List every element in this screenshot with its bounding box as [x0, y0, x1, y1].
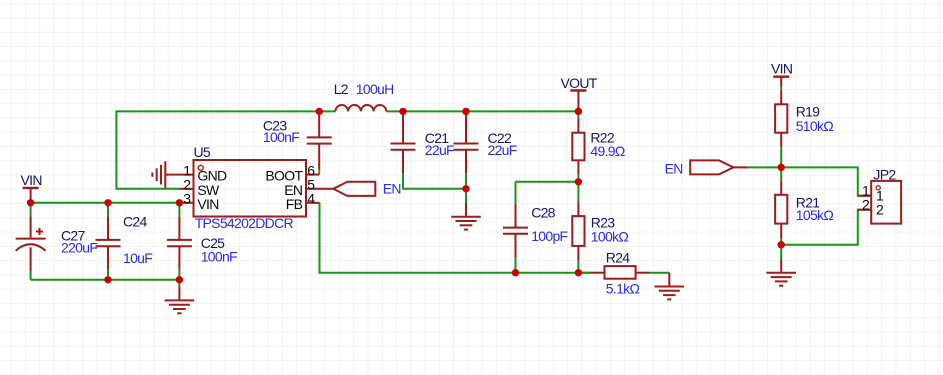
- junction VOUT node: [575, 108, 582, 115]
- wire R24 right to ground: [650, 272, 670, 274]
- svg-text:100pF: 100pF: [531, 228, 567, 244]
- svg-text:22uF: 22uF: [425, 142, 454, 158]
- resistor R23: [572, 202, 584, 261]
- svg-text:C24: C24: [123, 214, 147, 230]
- wire C28 top segment: [515, 182, 517, 204]
- svg-text:2: 2: [876, 201, 884, 217]
- junction EN divider node: [778, 164, 785, 171]
- wire C25 bottom segment: [178, 270, 180, 287]
- svg-text:VIN: VIN: [197, 196, 218, 212]
- wire R23 top segment: [577, 182, 579, 202]
- svg-text:105kΩ: 105kΩ: [796, 207, 834, 223]
- wire R21 top segment: [780, 167, 782, 181]
- wire R21 bottom to ground: [780, 245, 782, 259]
- svg-text:2: 2: [862, 196, 870, 212]
- capacitor C25: [167, 216, 192, 270]
- junction VIN port / C27 node: [27, 199, 34, 206]
- ground right of R24: [655, 273, 685, 300]
- svg-text:C28: C28: [531, 205, 555, 221]
- svg-text:FB: FB: [286, 196, 303, 212]
- wire FB node down and along bottom to R24: [320, 203, 591, 273]
- U5 pin2 SW stub: [179, 188, 193, 190]
- svg-text:5.1kΩ: 5.1kΩ: [606, 280, 640, 296]
- capacitor C27 polarized: [16, 216, 46, 271]
- junction R23 / R24 node: [575, 269, 582, 276]
- svg-text:JP2: JP2: [873, 167, 896, 183]
- wire top rail from L2 to VOUT node: [386, 110, 578, 112]
- svg-text:10uF: 10uF: [123, 250, 152, 266]
- junction L2 / C21 node: [399, 108, 406, 115]
- wire EN node to JP2 pin1: [781, 167, 871, 195]
- wire C25 top segment: [178, 203, 180, 216]
- svg-text:220uF: 220uF: [61, 239, 97, 255]
- junction C24 top node: [104, 199, 111, 206]
- wire C27 bottom segment: [30, 272, 32, 280]
- U5 pin5 EN stub to port: [306, 188, 333, 190]
- U5 pin3 VIN stub: [179, 202, 193, 204]
- ground below R21: [766, 259, 796, 286]
- JP2 pin1 stub: [858, 195, 871, 197]
- svg-text:100nF: 100nF: [263, 129, 299, 145]
- wire top rail L2 left lead: [319, 110, 335, 112]
- junction FB divider node: [575, 178, 582, 185]
- wire VIN right below port: [780, 87, 782, 91]
- svg-text:VIN: VIN: [21, 172, 42, 188]
- EN right port pin: [733, 166, 747, 168]
- junction C22 top node: [462, 108, 469, 115]
- port VOUT: [570, 91, 586, 112]
- IC U5 TPS54202DDCR body: [194, 160, 307, 217]
- wire R23 bottom segment: [577, 260, 579, 272]
- svg-text:L2: L2: [334, 81, 349, 97]
- U5 pin6 BOOT stub: [306, 174, 319, 176]
- JP2 pin2 stub: [858, 209, 871, 211]
- junction C22 bottom ground node: [462, 185, 469, 192]
- svg-text:EN: EN: [383, 181, 401, 197]
- capacitor C24: [96, 216, 121, 270]
- resistor R22: [577, 111, 579, 118]
- ground below C22: [451, 203, 481, 230]
- svg-text:510kΩ: 510kΩ: [796, 118, 834, 134]
- wire C27 top segment: [30, 203, 32, 216]
- U5 pin1 GND stub with ground attach: [165, 174, 193, 176]
- junction R21 bottom node: [778, 241, 785, 248]
- junction C24 bottom node: [104, 276, 111, 283]
- U5 pin4 FB stub: [306, 202, 320, 204]
- junction SW / C23 / L2 node: [316, 108, 323, 115]
- svg-text:100nF: 100nF: [201, 249, 237, 265]
- port EN at U5: [333, 182, 375, 196]
- junction C28 bottom node: [512, 269, 519, 276]
- port EN right: [690, 160, 733, 174]
- svg-text:R24: R24: [606, 249, 630, 265]
- svg-text:49.9Ω: 49.9Ω: [590, 143, 624, 159]
- wire C24 bottom segment: [107, 270, 109, 280]
- wire R24 left segment: [578, 272, 590, 274]
- capacitor C23: [307, 111, 332, 169]
- junction C25 / U5 VIN node: [176, 199, 183, 206]
- wire EN port right to node: [748, 166, 781, 168]
- wire C21 bottom to gnd net: [403, 173, 466, 189]
- wire R21 bottom node to JP2 pin2: [781, 210, 871, 245]
- junction C25 bottom ground node: [176, 276, 183, 283]
- wire SW loop from U5 pin2 up and over to L2 left node: [116, 111, 319, 188]
- wire bottom-left ground rail: [31, 279, 180, 281]
- svg-text:22uF: 22uF: [488, 142, 517, 158]
- connector JP2: [871, 181, 901, 224]
- capacitor C22: [454, 111, 479, 173]
- svg-text:U5: U5: [194, 144, 211, 160]
- svg-text:VOUT: VOUT: [561, 75, 598, 91]
- wire C22 bottom to ground: [465, 173, 467, 203]
- wire C28 bottom segment: [515, 258, 517, 273]
- wire feedback node to C28: [516, 181, 579, 183]
- svg-text:VIN: VIN: [771, 60, 792, 76]
- wire VIN rail: [31, 202, 180, 204]
- port VIN right: [773, 77, 789, 87]
- svg-text:4: 4: [307, 190, 315, 206]
- resistor R19: [775, 90, 787, 147]
- inductor L2: [335, 105, 386, 111]
- svg-text:3: 3: [183, 190, 191, 206]
- resistor R21: [780, 239, 782, 245]
- port VIN left: [23, 188, 39, 203]
- svg-text:EN: EN: [665, 161, 683, 177]
- ground below C25: [165, 286, 195, 313]
- wire C23 bottom to BOOT pin: [318, 170, 320, 175]
- capacitor C28: [503, 204, 528, 258]
- svg-text:100uH: 100uH: [356, 81, 394, 97]
- svg-text:100kΩ: 100kΩ: [591, 229, 629, 245]
- svg-text:TPS54202DDCR: TPS54202DDCR: [195, 215, 294, 231]
- wire C24 top segment: [107, 203, 109, 216]
- U5 pin1 indicator circle: [198, 165, 203, 170]
- capacitor C21: [391, 111, 416, 173]
- JP2 pin1 indicator circle: [876, 186, 880, 190]
- ground sideways at U5 GND pin: [152, 161, 165, 188]
- resistor R24: [591, 266, 650, 279]
- wire R19 bottom to EN node: [780, 147, 782, 167]
